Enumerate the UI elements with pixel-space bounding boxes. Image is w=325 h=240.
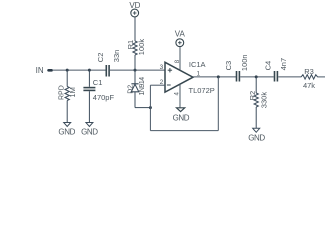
wire C4 to R3 xyxy=(278,76,301,78)
capacitor C2 xyxy=(105,65,107,77)
svg-text:VA: VA xyxy=(175,29,186,38)
svg-text:R3: R3 xyxy=(304,67,314,76)
svg-text:C3: C3 xyxy=(224,61,233,71)
svg-text:3: 3 xyxy=(160,64,164,71)
svg-text:4: 4 xyxy=(174,92,180,96)
svg-text:IN: IN xyxy=(36,66,44,75)
wire feedback bottom xyxy=(150,130,218,132)
svg-text:100k: 100k xyxy=(137,39,146,56)
pin 4 stub xyxy=(179,84,181,108)
svg-text:RPD: RPD xyxy=(58,85,65,100)
junction node R1/D2 xyxy=(134,69,137,72)
svg-text:1M: 1M xyxy=(68,87,77,97)
resistor RPD xyxy=(65,70,69,122)
svg-text:R1: R1 xyxy=(126,40,135,50)
resistor R2 xyxy=(254,77,258,128)
pin 8 stub xyxy=(179,47,181,71)
svg-text:GND: GND xyxy=(58,128,75,137)
svg-text:2: 2 xyxy=(160,79,164,86)
capacitor C4 xyxy=(274,71,276,82)
svg-text:C2: C2 xyxy=(96,53,105,63)
svg-text:100n: 100n xyxy=(240,54,249,71)
wire IN rail xyxy=(52,69,106,71)
svg-text:330k: 330k xyxy=(259,92,268,109)
svg-text:33n: 33n xyxy=(112,50,121,63)
ground GND (op-amp) xyxy=(177,108,185,112)
wire C2 to node xyxy=(110,69,165,71)
plus input mark xyxy=(167,68,172,85)
pin IN xyxy=(49,69,52,72)
pin 2 wire xyxy=(150,84,165,86)
wire feedback left vertical xyxy=(149,85,151,130)
junction R2 node xyxy=(255,75,258,78)
supply VD xyxy=(131,9,139,17)
svg-text:IC1A: IC1A xyxy=(189,60,206,69)
svg-text:47k: 47k xyxy=(303,81,315,90)
svg-text:D2: D2 xyxy=(128,85,135,94)
svg-text:4n7: 4n7 xyxy=(279,58,288,71)
op-amp U1 triangle xyxy=(165,62,193,92)
svg-text:C4: C4 xyxy=(264,61,273,71)
junction inverting node xyxy=(149,106,152,109)
diode D2 xyxy=(131,70,150,108)
svg-text:GND: GND xyxy=(81,128,98,137)
wire output rail xyxy=(193,76,236,78)
svg-text:TL072P: TL072P xyxy=(189,86,215,95)
capacitor C3 xyxy=(236,71,238,82)
wire D2 to inverting node xyxy=(135,107,150,109)
minus input mark xyxy=(167,84,171,86)
svg-text:1N914: 1N914 xyxy=(139,77,146,96)
svg-text:470pF: 470pF xyxy=(93,93,115,102)
ground GND (C1) xyxy=(86,123,93,127)
resistor R3 xyxy=(301,75,317,79)
resistor R1 xyxy=(133,17,137,70)
junction output node xyxy=(217,75,220,78)
junction node C1 xyxy=(88,69,91,72)
ground GND (RPD) xyxy=(64,123,71,127)
svg-text:GND: GND xyxy=(248,133,265,142)
wire C3 to R2 node xyxy=(240,76,274,78)
ground GND (R2) xyxy=(253,128,260,132)
supply VA xyxy=(176,39,184,47)
svg-text:GND: GND xyxy=(173,113,190,122)
wire feedback right vertical xyxy=(217,77,219,131)
svg-text:C1: C1 xyxy=(93,78,103,87)
wire R3 to edge xyxy=(317,76,325,78)
svg-text:VD: VD xyxy=(129,1,140,10)
svg-text:R2: R2 xyxy=(248,91,257,101)
junction node RPD xyxy=(66,69,69,72)
capacitor C1 xyxy=(88,70,90,87)
